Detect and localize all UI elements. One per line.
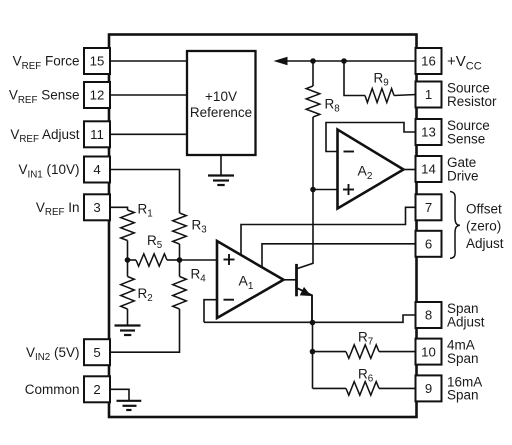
svg-text:VREF In: VREF In [36,200,80,218]
wire pin 13 to A2 minus input (feedback loop) [326,123,417,152]
svg-text:VREF Sense: VREF Sense [9,88,80,106]
pin 7 box (right) [416,194,442,220]
wire to R6 [313,387,347,389]
op-amp A1 [217,241,284,318]
svg-text:11: 11 [90,127,104,142]
wire span line to pin 8 [204,315,417,322]
+10V Reference box [187,51,256,155]
svg-text:Reference: Reference [190,105,252,120]
arrowhead on VCC rail (points left) [274,57,288,66]
wire node to A1 plus input [180,259,218,261]
transistor Q1 base bar [295,264,298,296]
resistor R4 [179,260,181,277]
transistor emitter with arrow [298,288,313,322]
svg-text:R2: R2 [138,286,153,304]
junction emitter/span line [310,320,316,326]
junction node A2+ / collector [310,187,316,193]
wire VCC to R9 [344,61,365,96]
junction node R8/VCC [310,58,316,64]
pin 8 box (right) [416,302,442,328]
wire A1 output to transistor base [284,279,296,281]
svg-text:Span: Span [447,388,479,403]
svg-text:6: 6 [425,237,432,252]
op-amp A2 [338,130,404,209]
svg-text:3: 3 [93,200,100,215]
wire pin 2 to ground [109,389,129,400]
svg-text:R3: R3 [192,218,208,236]
wire R5 to node [167,259,180,261]
wire pin 4 to R3 [109,170,180,214]
pin 16 box (right) [416,48,442,74]
A1 plus sign [224,259,235,261]
wire R1 to node [127,241,129,261]
wire pin 11 to reference [109,133,187,135]
wire A2 output to pin 14 [404,169,417,171]
wire VCC to R8 [312,61,314,86]
ground below reference box [220,155,222,175]
wire to R7 [313,351,347,353]
A2 plus sign [343,189,354,191]
resistor R9 [365,89,394,103]
svg-text:VIN2 (5V): VIN2 (5V) [26,345,80,363]
resistor R5 [136,254,167,266]
svg-text:7: 7 [425,200,432,215]
svg-text:VIN1 (10V): VIN1 (10V) [18,162,79,180]
pin 5 box (left) [84,339,110,365]
svg-text:14: 14 [421,162,436,177]
ground at pin 2 [117,400,142,402]
ground below R2 [127,309,129,325]
wire R8 to A2 + input node [312,117,314,190]
svg-text:15: 15 [90,54,105,69]
pin 2 box (left) [84,376,110,402]
pin 12 box (left) [84,82,110,108]
wire R3 to node [179,244,181,260]
svg-text:+VCC: +VCC [447,53,482,72]
resistor R1 [121,210,135,241]
svg-text:R5: R5 [147,233,163,251]
svg-text:(zero): (zero) [466,219,501,234]
svg-text:1: 1 [425,87,432,102]
wire node to R5 [128,259,137,261]
resistor R6 [346,382,379,396]
wire emitter column down [312,323,314,389]
pin 15 box (left) [84,48,110,74]
wire +VCC rail from pin 16 with arrow [285,60,417,62]
pin 4 box (left) [84,157,110,183]
svg-text:4: 4 [93,162,100,177]
svg-text:10: 10 [421,344,436,359]
svg-text:R1: R1 [138,202,153,220]
junction R7 [310,349,316,355]
svg-text:Adjust: Adjust [447,314,485,329]
wire pin 15 to reference [109,60,187,62]
svg-text:Resistor: Resistor [447,94,497,109]
wire R4 to pin 5 [109,309,180,352]
svg-text:Span: Span [447,351,479,366]
svg-text:R4: R4 [191,267,207,285]
svg-text:2: 2 [93,382,100,397]
resistor R2 [127,260,129,277]
wire R7 to pin 10 [379,351,417,353]
svg-text:Drive: Drive [447,168,479,183]
svg-text:Common: Common [25,382,80,397]
resistor R3 [173,213,187,244]
svg-text:R8: R8 [325,97,341,115]
pin 6 box (right) [416,231,442,257]
svg-text:Offset: Offset [466,202,502,217]
pin 9 box (right) [416,375,442,401]
pin 14 box (right) [416,156,442,182]
svg-text:R9: R9 [374,71,389,89]
svg-text:12: 12 [90,88,105,103]
wire A2 plus input [313,189,338,191]
A1 minus sign [224,299,235,301]
wire pin 3 to R1 [109,207,128,210]
svg-text:13: 13 [421,125,436,140]
node R1/R5/R2 [125,257,131,263]
wire A1 minus input feedback [204,300,217,323]
wire R6 to pin 9 [379,387,417,389]
svg-text:VREF Force: VREF Force [13,54,80,72]
svg-text:5: 5 [93,345,100,360]
svg-text:Sense: Sense [447,131,485,146]
A2 minus sign [344,151,355,153]
svg-text:9: 9 [425,381,432,396]
pin 13 box (right) [416,119,442,145]
IC boundary box [109,35,417,418]
svg-text:VREF Adjust: VREF Adjust [10,127,79,145]
svg-text:16: 16 [421,54,436,69]
node R3/R4/R5/A1+ [177,257,183,263]
pin 10 box (right) [416,339,442,365]
resistor R8 [306,86,320,117]
transistor collector [298,190,314,269]
pin 3 box (left) [84,194,110,220]
wire pin 12 to reference [109,94,187,96]
pin 1 box (right) [416,82,442,108]
brace for Offset Adjust pins 7,6 [450,192,460,259]
svg-text:8: 8 [425,308,432,323]
svg-text:Adjust: Adjust [466,236,504,251]
junction node R9/VCC [341,58,347,64]
wire pin 7 to A1 (offset) [241,207,417,255]
wire pin 6 to A1 (offset) [262,244,417,268]
pin 11 box (left) [84,121,110,147]
resistor R7 [346,345,379,359]
svg-text:+10V: +10V [205,89,237,104]
wire R9 to pin 1 [394,95,417,96]
